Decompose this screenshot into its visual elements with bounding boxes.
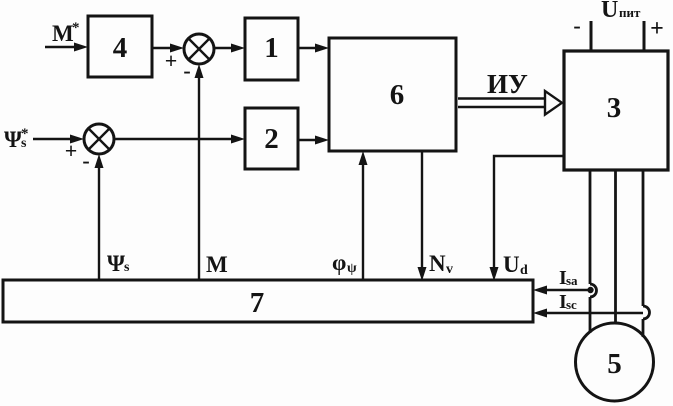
wire: phase c from block 3 to motor 5 with pickup loop bbox=[643, 170, 650, 337]
block 3 bbox=[564, 51, 668, 170]
block 7 bbox=[3, 280, 533, 322]
summer S1 (torque comparison) bbox=[184, 34, 214, 64]
svg-text:s: s bbox=[124, 260, 130, 275]
wire: Isc current feedback to block 7 bbox=[533, 309, 643, 318]
node Uпит supply label bbox=[601, 0, 641, 23]
motor 5 bbox=[576, 323, 654, 401]
svg-text:M: M bbox=[206, 252, 228, 277]
wire: supply stub negative bbox=[590, 21, 593, 51]
svg-text:U: U bbox=[503, 252, 520, 277]
block 1 bbox=[245, 18, 298, 80]
wire: phase b from block 3 to motor 5 bbox=[614, 170, 617, 323]
svg-text:пит: пит bbox=[619, 5, 641, 20]
svg-text:+: + bbox=[165, 48, 178, 73]
svg-text:ИУ: ИУ bbox=[487, 69, 528, 99]
block 4 bbox=[88, 16, 152, 77]
svg-text:5: 5 bbox=[607, 348, 622, 380]
svg-text:Ψ: Ψ bbox=[4, 127, 22, 152]
svg-text:d: d bbox=[520, 263, 528, 278]
svg-text:7: 7 bbox=[250, 287, 265, 319]
block 2 bbox=[245, 108, 298, 169]
svg-text:sa: sa bbox=[566, 273, 578, 288]
wire: Ud tap from block 3 to block 7 bbox=[490, 156, 565, 281]
summer S2 (flux comparison) bbox=[84, 124, 114, 154]
node Isa label bbox=[559, 267, 578, 289]
svg-text:6: 6 bbox=[390, 79, 405, 111]
node Psi_s* input label bbox=[4, 126, 29, 152]
svg-text:M: M bbox=[52, 21, 74, 46]
svg-text:+: + bbox=[65, 138, 78, 163]
wire: Nv from block 6 to block 7 bbox=[418, 151, 427, 281]
svg-text:φ: φ bbox=[332, 250, 346, 275]
svg-text:2: 2 bbox=[264, 123, 279, 155]
svg-text:-: - bbox=[82, 148, 89, 173]
svg-text:+: + bbox=[650, 16, 664, 42]
node phi_psi label bbox=[332, 250, 357, 276]
svg-text:ψ: ψ bbox=[347, 261, 357, 276]
svg-text:U: U bbox=[601, 0, 618, 23]
svg-text:v: v bbox=[446, 262, 453, 277]
wire: phi_psi feedback from block 7 to block 6 bbox=[359, 151, 368, 281]
block 6 bbox=[329, 38, 456, 151]
svg-text:4: 4 bbox=[113, 32, 128, 64]
wire: phase a from block 3 to motor 5 with pickup loop bbox=[590, 170, 597, 333]
wire: block 1 to block 6 bbox=[298, 44, 329, 53]
wire: block 4 to summer S1 bbox=[152, 44, 184, 53]
wire: supply stub positive bbox=[643, 21, 646, 51]
wire: summer S2 to block 2 bbox=[114, 135, 245, 144]
svg-text:-: - bbox=[183, 58, 190, 83]
node Isc label bbox=[559, 291, 577, 313]
wire: Psi_s feedback from block 7 to summer S2 bbox=[95, 154, 104, 280]
svg-text:*: * bbox=[72, 20, 80, 36]
svg-text:*: * bbox=[21, 126, 29, 142]
node Nv label bbox=[429, 251, 453, 277]
wire: M* input to block 4 bbox=[45, 43, 88, 52]
node Ud label bbox=[503, 252, 528, 278]
svg-text:-: - bbox=[573, 13, 580, 38]
svg-text:1: 1 bbox=[264, 32, 279, 64]
node M* input label bbox=[52, 20, 80, 46]
wire: M feedback from block 7 to summer S1 bbox=[195, 64, 204, 280]
wire: Isa current feedback to block 7 bbox=[533, 286, 594, 295]
svg-text:sc: sc bbox=[566, 297, 577, 312]
wire: double-line bus arrow block 6 to block 3 bbox=[458, 91, 562, 115]
node Psi_s feedback label bbox=[107, 251, 130, 276]
svg-text:N: N bbox=[429, 251, 446, 276]
svg-text:Ψ: Ψ bbox=[107, 251, 125, 276]
wire: Psi_s* input to summer S2 bbox=[33, 135, 84, 144]
wire: block 2 to block 6 bbox=[298, 136, 329, 145]
svg-text:3: 3 bbox=[607, 92, 622, 124]
wire: summer S1 to block 1 bbox=[214, 44, 245, 53]
